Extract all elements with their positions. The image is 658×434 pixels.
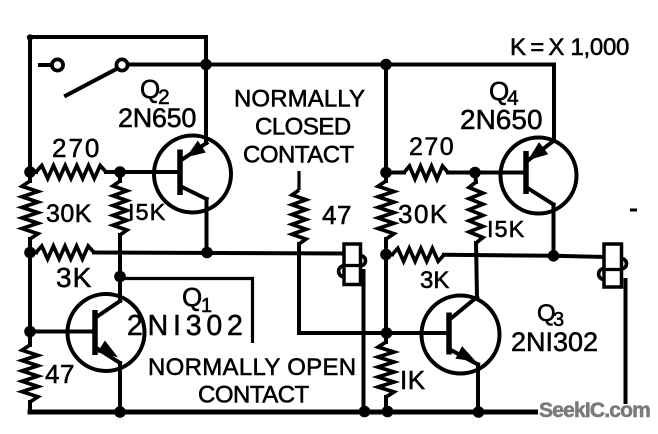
wire right connector drop to bottom rail [624, 280, 628, 412]
watermark background cover [538, 404, 652, 422]
wire Q2 base [120, 170, 180, 174]
svg-text:47: 47 [322, 200, 352, 230]
svg-text:K = X 1,000: K = X 1,000 [510, 34, 629, 61]
connector plug middle (contact terminal) [344, 244, 361, 285]
switch contact circle right [116, 59, 127, 70]
resistor R 3K left [30, 251, 36, 255]
wire bottom rail [30, 410, 628, 415]
transistor Q3 emitter diagonal [449, 349, 478, 365]
node J8 Q2 collector / 3K row [201, 247, 213, 259]
wire NC contact pointer stub [297, 171, 300, 190]
transistor Q4 circle [501, 138, 577, 214]
svg-text:IK: IK [400, 365, 426, 395]
node J12 left rail / Q1 base [24, 326, 36, 338]
wire right rail upper [384, 65, 388, 182]
resistor R 270 right [386, 171, 404, 175]
svg-text:47: 47 [45, 359, 75, 389]
wire right rail middle [384, 239, 388, 342]
transistor Q1 base bar [92, 310, 98, 355]
svg-text:3K: 3K [56, 262, 92, 293]
svg-text:3K: 3K [420, 267, 449, 294]
node J17 bottom rail / Q3 emitter [473, 406, 485, 418]
wire vertical x=206 (top box corner down to Q2 emitter) [204, 37, 208, 143]
svg-text:30K: 30K [398, 199, 449, 229]
node J16 bottom rail / 1K [382, 406, 394, 418]
wire Q3 emitter to bottom rail [476, 365, 480, 413]
wire Q1 base [30, 330, 95, 334]
svg-text:30K: 30K [46, 200, 92, 228]
node J9 right rail / 3K [380, 249, 392, 261]
resistor R 15K left (x=120 vertical) [118, 172, 122, 181]
transistor Q2 collector diagonal [180, 186, 207, 199]
resistor R 47 left (on left rail) [22, 345, 38, 402]
node J10 Q4 collector / row [548, 250, 560, 262]
svg-text:NORMALLY: NORMALLY [234, 86, 365, 113]
transistor Q3 collector diagonal [449, 297, 477, 320]
node J4 Q2 base / 270 / 15K [114, 166, 126, 178]
node top-left corner [27, 34, 33, 40]
svg-text:SeekIC.com: SeekIC.com [539, 399, 650, 422]
wire NC branch horizontal to right rail [299, 331, 386, 335]
node J7 left rail / 3K [24, 247, 36, 259]
svg-text:270: 270 [409, 133, 455, 161]
transistor Q2 emitter arrow (PNP inward) [188, 142, 205, 156]
transistor Q1 emitter diagonal [95, 347, 120, 363]
svg-text:270: 270 [52, 133, 101, 163]
transistor Q2 emitter diagonal [180, 143, 207, 161]
resistor R 30K right (on right rail) [378, 181, 394, 239]
transistor Q3 emitter arrow (NPN outward) [457, 347, 474, 360]
node J14 bottom rail / Q1 emitter [114, 406, 126, 418]
wire left rail upper [28, 37, 32, 181]
svg-text:2NI302: 2NI302 [127, 310, 248, 342]
svg-text:I5K: I5K [128, 199, 166, 225]
transistor Q4 collector diagonal [526, 187, 554, 205]
svg-text:CONTACT: CONTACT [243, 142, 355, 169]
wire Q2 collector drop [205, 199, 209, 253]
resistor R 30K left (on left rail) [22, 181, 38, 239]
artifact mark right edge [630, 209, 637, 212]
switch contact circle left [52, 59, 63, 70]
svg-text:I5K: I5K [487, 216, 525, 242]
transistor Q4 base bar [523, 151, 529, 194]
wire 3K row to NC contact plug [94, 253, 345, 254]
node J5 right rail / 270 [380, 167, 392, 179]
transistor Q2 circle [154, 136, 231, 213]
svg-text:CONTACT: CONTACT [198, 382, 310, 409]
svg-text:2N650: 2N650 [118, 103, 196, 133]
node J6 Q4 base / 270 / 15K [469, 167, 481, 179]
resistor R 15K right (x=476 vertical) [475, 173, 476, 183]
wire middle connector drop to bottom rail [362, 271, 366, 412]
resistor R 3K right [386, 253, 392, 257]
wire left rail middle [28, 239, 32, 345]
wire Q3 base [386, 331, 449, 335]
wire top horizontal [128, 63, 554, 67]
transistor Q2 base bar [177, 150, 183, 196]
node J11 Q1 collector / 15K / pointer [114, 271, 126, 283]
transistor Q1 circle [68, 294, 145, 371]
wire Q1 collector drop [118, 277, 122, 302]
transistor Q1 collector diagonal [95, 301, 120, 318]
node J2 top wire / right rail [380, 59, 392, 71]
transistor Q3 circle [422, 296, 500, 374]
node J15 bottom rail / connector drop [359, 406, 371, 418]
transistor Q4 emitter arrow (PNP inward) [530, 143, 548, 159]
resistor R 270 left [30, 170, 36, 174]
svg-text:CLOSED: CLOSED [255, 114, 351, 141]
wire vertical x=554 (top wire down to Q4 emitter) [552, 65, 556, 141]
svg-text:NORMALLY OPEN: NORMALLY OPEN [148, 354, 356, 381]
connector plug right (contact terminal) [604, 244, 622, 287]
wire Q1 emitter to bottom rail [118, 363, 122, 412]
svg-text:2NI302: 2NI302 [511, 327, 598, 357]
svg-text:2N650: 2N650 [460, 104, 543, 135]
wire top-left box top [30, 35, 206, 39]
node J1 top wire / Q2 emitter [200, 59, 212, 71]
switch arm [66, 70, 115, 96]
wire Q4 collector drop [552, 205, 556, 256]
transistor Q1 emitter arrow (NPN outward) [99, 342, 116, 356]
node J13 right rail / Q3 base / NC branch / 1K [381, 327, 393, 339]
transistor Q3 base bar [446, 313, 452, 355]
wire left rail lower stub [28, 402, 32, 412]
wire normally-open pointer (Q1 collector to NO contact) [120, 279, 253, 344]
node J3 left rail / 270 [24, 166, 36, 178]
wire right rail lower stub [384, 397, 388, 412]
svg-text:Q: Q [182, 282, 202, 312]
resistor R 1K right (on right rail) [378, 342, 394, 397]
resistor R 47 middle (NC contact) [292, 190, 306, 244]
wire switch stub from rail [40, 63, 52, 67]
wire 3K row right to Q4 collector and plug [444, 255, 604, 257]
transistor Q4 emitter diagonal [526, 141, 554, 163]
wire Q4 base [475, 171, 526, 175]
